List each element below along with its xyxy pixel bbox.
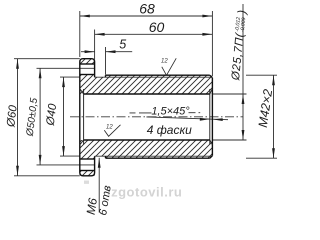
svg-text:12: 12 (106, 125, 113, 131)
svg-text:1,5×45°: 1,5×45° (151, 106, 190, 118)
svg-text:12: 12 (161, 59, 168, 65)
svg-text:5: 5 (119, 38, 126, 52)
svg-text:68: 68 (139, 1, 155, 17)
svg-text:izgotovil.ru: izgotovil.ru (107, 185, 182, 200)
svg-text:4 фаски: 4 фаски (147, 123, 192, 137)
svg-text:60: 60 (149, 19, 165, 35)
